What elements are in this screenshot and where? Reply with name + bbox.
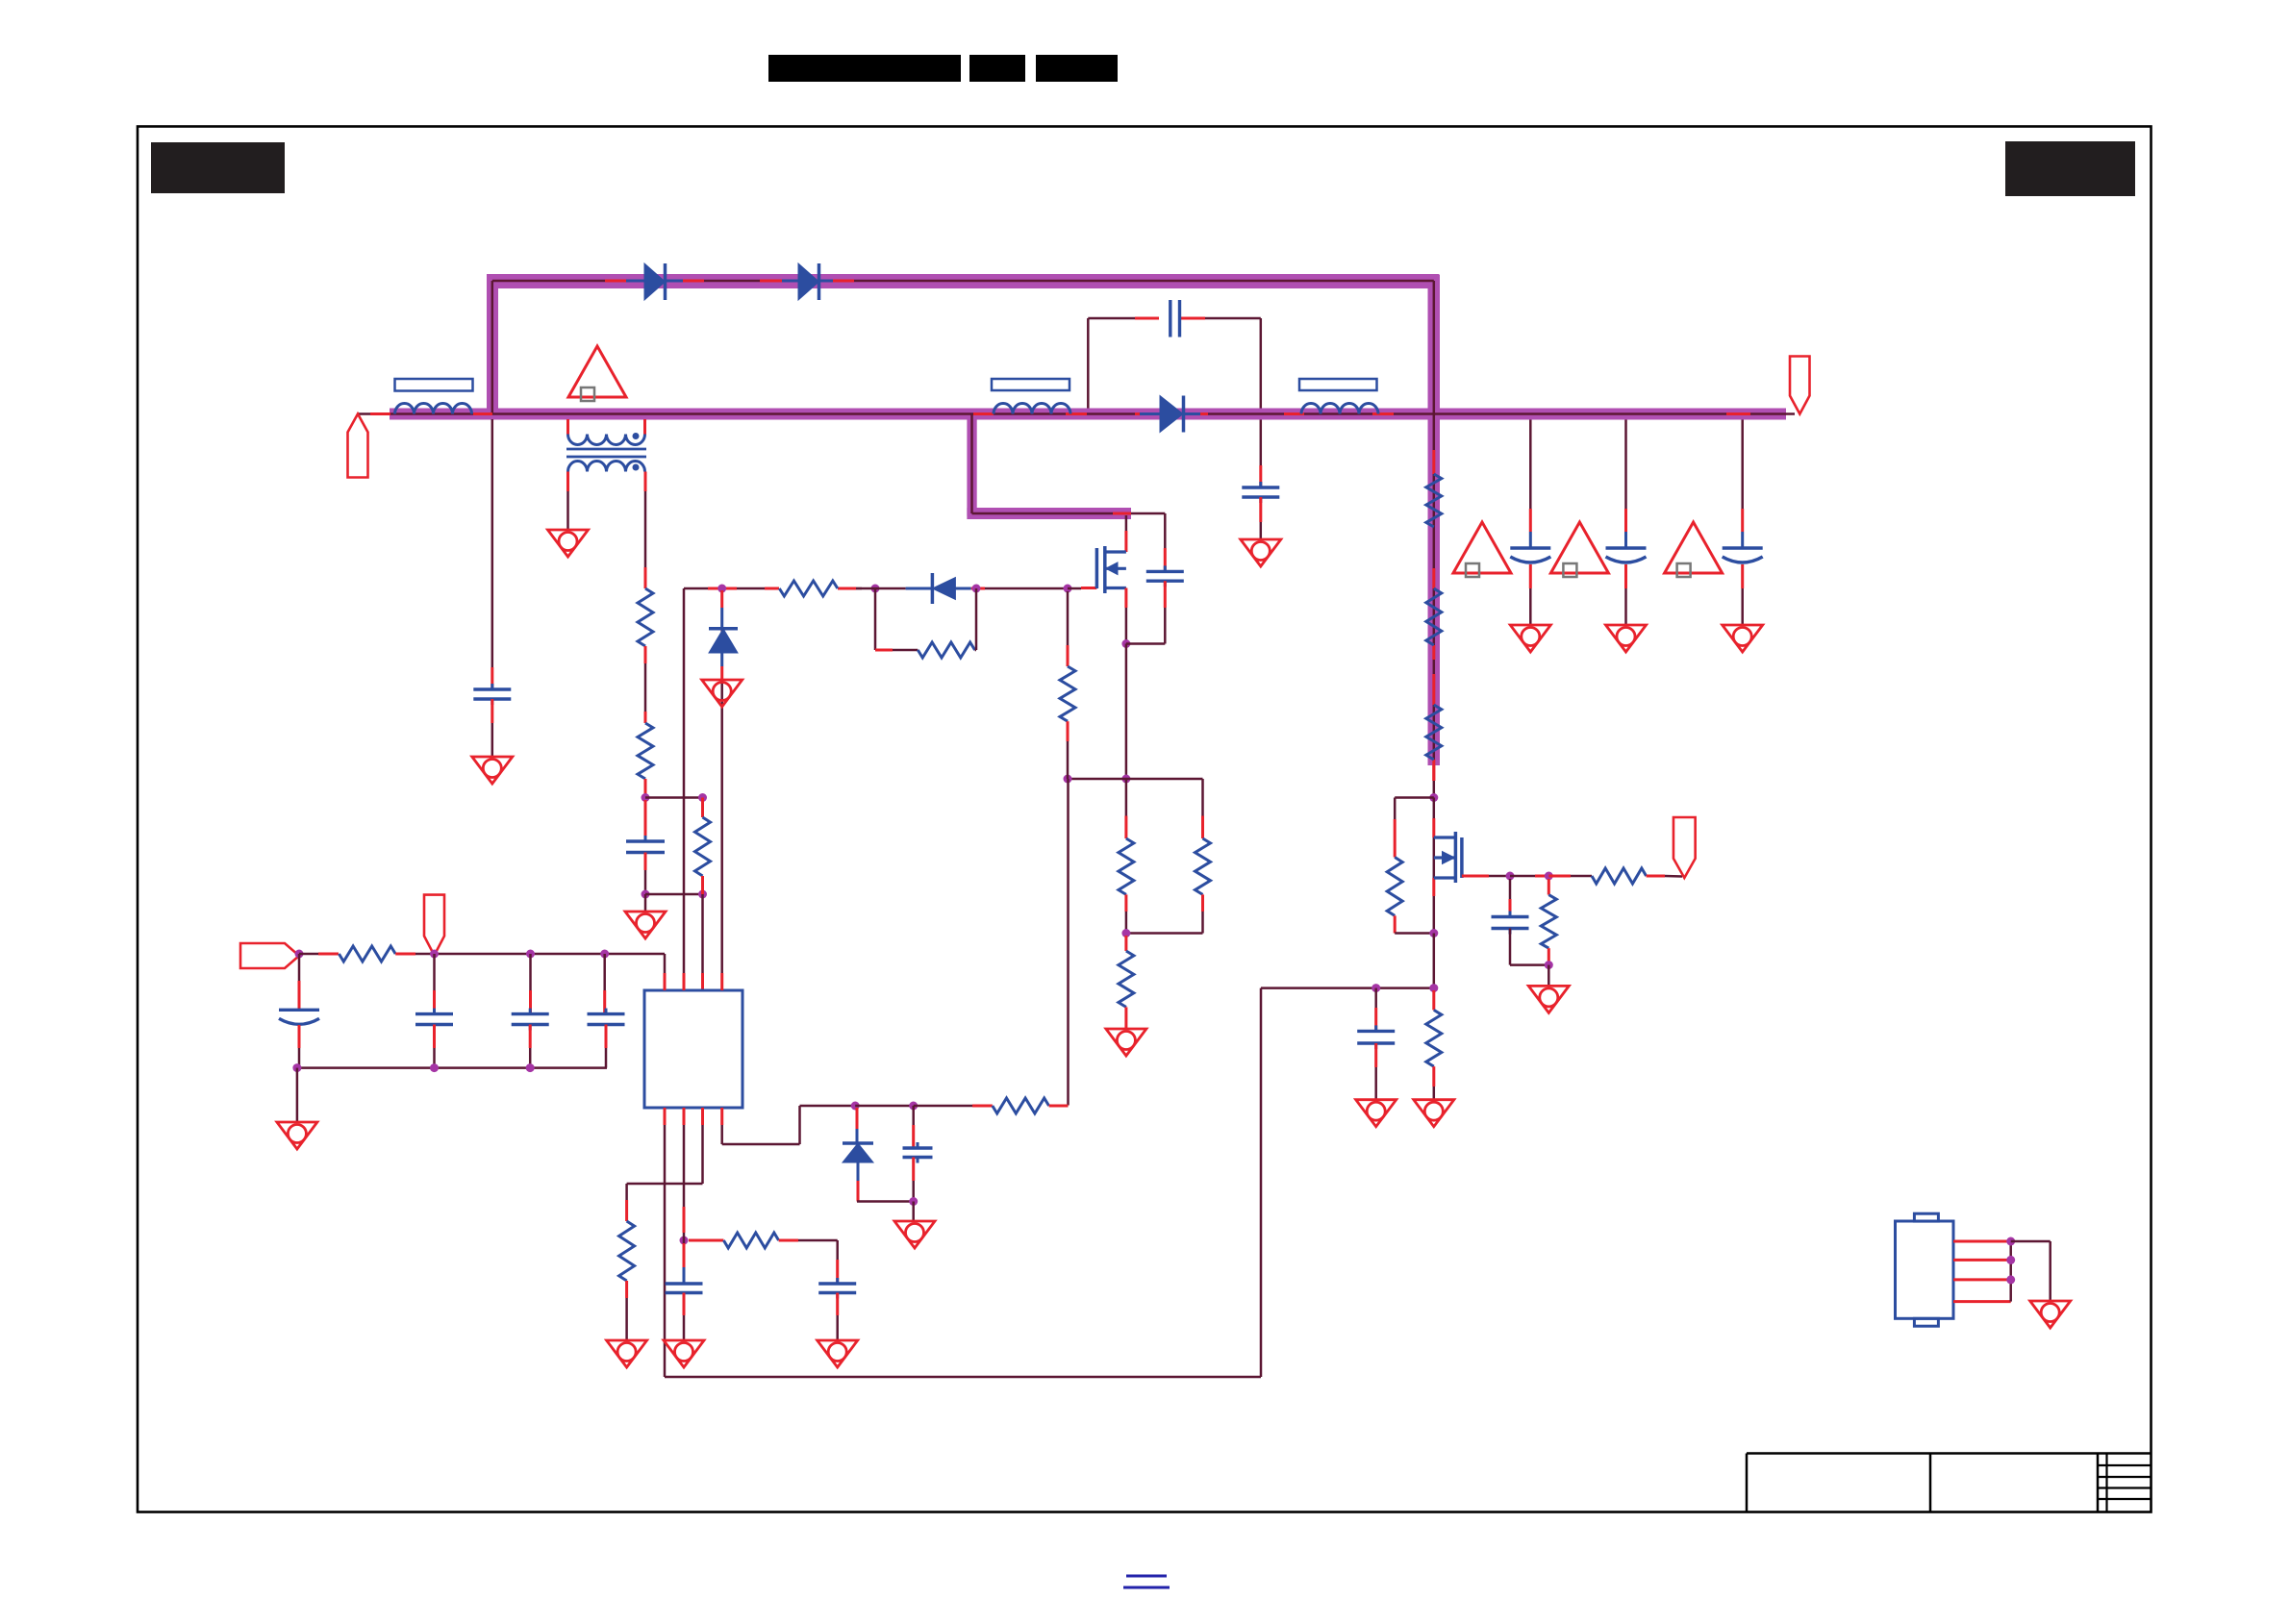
wire red segment after R4 [395, 953, 415, 956]
warning symbol W3 [1550, 522, 1608, 573]
wire rail up right [1260, 988, 1263, 1377]
zener diode D6 [709, 627, 738, 631]
capacitor C10 upper lead [683, 1243, 686, 1267]
connector CN2 pin 2 [1953, 1259, 2011, 1262]
resistor R5 [779, 581, 838, 596]
capacitor C5 upper lead [529, 954, 532, 990]
wire R3 lower lead [701, 876, 704, 894]
title bar redacted block 2 [969, 55, 1025, 82]
connector CN2 pin 1 [1953, 1240, 2011, 1243]
transformer T1 core [566, 448, 646, 451]
inductor L2 [994, 404, 1070, 414]
warning symbol W1 [568, 346, 626, 397]
MOSFET Q1 [1105, 550, 1126, 553]
wire pin C down [701, 1125, 704, 1184]
wire CN2 pin bus [2009, 1241, 2012, 1302]
ground C16 [1606, 625, 1647, 652]
capacitor C10 [666, 1282, 703, 1285]
node Q2D [1429, 793, 1438, 802]
diode D3 [1140, 412, 1160, 415]
resistor R19 [1541, 895, 1556, 949]
ground R13 [607, 1340, 647, 1367]
node VCC4 [600, 950, 609, 959]
wire Q2 source row [1261, 987, 1434, 989]
transformer T1 primary winding [568, 435, 645, 445]
capacitor C19 upper lead [1374, 988, 1377, 1008]
resistor R8 [1195, 838, 1211, 894]
inductor L1 shield box [395, 379, 473, 391]
wire red segment bypass left [875, 649, 893, 652]
diode D5 [875, 587, 906, 590]
wire pin4 jog [720, 1125, 723, 1144]
wire P1 stub [683, 1233, 686, 1243]
ground input rail [277, 1122, 317, 1149]
wire Q1 drain [1125, 515, 1128, 531]
resistor R13 [619, 1221, 635, 1281]
wire main bus [358, 412, 1786, 415]
wire divider bottom row [1126, 932, 1203, 935]
wire red segments right bus vertical [1432, 450, 1435, 474]
wire red segment top bus 2 [683, 280, 704, 283]
connector CN2 pin 4 [1953, 1300, 2011, 1303]
wire bypass loop right [975, 649, 976, 652]
capacitor C7 (Q1 snubber) [1146, 570, 1184, 573]
wire rail to ground [296, 1068, 299, 1122]
wire C16 to ground [1624, 564, 1627, 588]
warning symbol W4 [1665, 522, 1723, 573]
wire bus drop to C17 [1741, 420, 1744, 510]
capacitor C3 (electrolytic) upper lead [298, 954, 301, 981]
node GND2 [430, 1063, 439, 1072]
node S0 [1064, 775, 1072, 784]
wire red segment before D3 [1135, 412, 1154, 415]
resistor R20 [1426, 1010, 1442, 1066]
wire bus drop to C15 [1529, 420, 1532, 510]
node GA [1506, 872, 1515, 881]
wire R9 upper lead [1124, 936, 1127, 951]
wire top bus [492, 280, 1434, 283]
capacitor C9 [818, 1282, 856, 1285]
B+ bus highlight (lower horizontal) [967, 508, 1131, 519]
wire Q2 gate right [1462, 875, 1489, 878]
connector CN1 (AC input) [348, 414, 368, 478]
wire R19 lower lead [1548, 948, 1550, 964]
connector CN2 pin 3 [1953, 1278, 2011, 1281]
wire GA to GB [1510, 875, 1535, 878]
ground zener [702, 680, 742, 707]
wire D7 to node [857, 1200, 914, 1203]
top-right redacted label box [2005, 141, 2135, 196]
wire Q1 source chain [1125, 644, 1128, 780]
wire bus drop to C16 [1624, 420, 1627, 510]
wire C18 bottom [1509, 929, 1512, 965]
wire C15 to ground [1529, 564, 1532, 588]
wire R10 upper lead [1067, 591, 1070, 645]
capacitor C1 [473, 687, 511, 690]
wire T1 secondary left to ground [566, 472, 569, 492]
B+ bus highlight (right vertical) [1428, 275, 1441, 766]
wire red segment top bus 4 [833, 280, 854, 283]
capacitor C16 (electrolytic) [1606, 546, 1647, 549]
resistor R6 [918, 642, 974, 658]
node A4 [698, 890, 707, 899]
node GND1 [292, 1063, 301, 1072]
wire pin A down [664, 1125, 667, 1377]
capacitor C15 (electrolytic) [1510, 546, 1550, 549]
wire node A1 right [645, 796, 703, 799]
zener D6 lower lead [720, 653, 723, 666]
node S1 [1121, 775, 1130, 784]
resistor R14 (bus) [1426, 474, 1442, 527]
resistor R9 [1119, 951, 1134, 1007]
node GC [1545, 961, 1553, 969]
capacitor C4 [415, 1012, 453, 1015]
capacitor C13 (snubber) [1169, 300, 1171, 337]
capacitor C4 upper lead [433, 954, 436, 990]
ground C15 [1510, 625, 1550, 652]
node F3 [909, 1197, 918, 1206]
wire bus bottom to Q2 [1432, 765, 1435, 781]
wire R13 to ground [625, 1281, 628, 1298]
node CN2c [2006, 1275, 2015, 1284]
wire R2 to node [644, 779, 647, 798]
node CN2a [2006, 1237, 2015, 1246]
node CN2b [2006, 1256, 2015, 1264]
wire F1 to F2 [855, 1105, 914, 1108]
wire bypass loop left [874, 588, 877, 650]
wire R20 upper lead [1432, 990, 1435, 1010]
outer border frame [138, 127, 2152, 1512]
wire R20 lower lead [1432, 1066, 1435, 1087]
connector CN3 (VCC in) [424, 895, 444, 956]
capacitor C8 lower lead [912, 1158, 915, 1182]
wire divider top row [1068, 778, 1203, 781]
diode D7 [843, 1141, 873, 1145]
wire C9 to ground [836, 1293, 839, 1316]
top-left redacted label box [151, 142, 285, 193]
diode D7 lower lead [857, 1162, 860, 1181]
wire red segment before R4 [318, 953, 339, 956]
IC U1 pin stubs top [664, 973, 667, 990]
wire C5 lower lead [529, 1025, 532, 1049]
wire bus jog vertical [970, 414, 973, 514]
B+ bus highlight (left vertical) [487, 275, 498, 419]
resistor R15 (bus) [1426, 588, 1442, 645]
wire bus lower horizontal [972, 512, 1132, 515]
wire red segment after L3 [1372, 412, 1394, 415]
ground R9 [1106, 1029, 1146, 1056]
ground CN2 [2030, 1301, 2071, 1328]
wire feedback vertical [1067, 779, 1070, 1106]
wire VCC net [299, 953, 318, 956]
wire C4 lower lead [433, 1025, 436, 1049]
wire T1 secondary right down [644, 472, 647, 492]
wire pin2 vertical [683, 588, 686, 973]
wire red segment before C13 [1135, 317, 1159, 320]
wire node A3 to ground [644, 894, 647, 912]
ground C14 [1241, 539, 1281, 566]
wire after D5 [971, 587, 985, 590]
ground R20 [1414, 1100, 1454, 1127]
capacitor C2 [626, 839, 665, 842]
wire C19 to ground [1374, 1043, 1377, 1067]
capacitor C6 [588, 1012, 625, 1015]
resistor R12 [723, 1233, 778, 1248]
wire C2 lower lead [644, 853, 647, 871]
diode D1 [644, 263, 666, 300]
wire R19 upper lead [1548, 879, 1550, 895]
B+ bus highlight (top horizontal) [487, 274, 1439, 288]
zener D6 upper lead [720, 590, 723, 608]
ground C19 [1356, 1100, 1397, 1127]
resistor R16 (bus) [1426, 705, 1442, 760]
node VCC1 [295, 950, 304, 959]
wire red segment after L1 [473, 412, 492, 415]
node A2 [698, 793, 707, 802]
wire R11 right [1049, 1105, 1069, 1108]
wire C1 to ground [491, 699, 493, 723]
transformer T1 primary lead left [566, 419, 569, 435]
node A3 [642, 890, 650, 899]
wire R18 to CN5 [1647, 875, 1665, 878]
wire below bus to C14 [1260, 420, 1263, 466]
wire snubber cap bottom [1164, 581, 1167, 608]
wire R17 bottom [1394, 915, 1397, 933]
title block outline [1747, 1452, 2152, 1455]
IC U1 [644, 990, 742, 1108]
diode D7 upper lead [856, 1108, 859, 1129]
capacitor C5 [512, 1012, 549, 1015]
inductor L1 [395, 404, 472, 414]
wire bottom rail [665, 1376, 1261, 1379]
inductor L3 [1301, 404, 1378, 414]
resistor R1 [638, 588, 653, 646]
wire red segment before L3 [1284, 412, 1304, 415]
capacitor C6 upper lead [603, 954, 606, 990]
wire C14 to ground [1259, 497, 1262, 522]
capacitor C14 [1242, 486, 1279, 488]
ground F [894, 1221, 935, 1248]
diode D2 [798, 263, 819, 300]
wire pin B down [683, 1125, 686, 1207]
wire IC pin3 up [701, 894, 704, 973]
resistor R2 [638, 723, 653, 779]
wire GB right [1548, 875, 1571, 878]
ground C10 [664, 1340, 704, 1367]
resistor R7 [1119, 838, 1134, 894]
wire red segment at bus right end [1726, 412, 1750, 415]
wire R8 lower lead [1201, 894, 1204, 912]
resistor R11 [993, 1098, 1049, 1113]
node QS1 [1371, 984, 1380, 992]
wire R12 to C9 [779, 1239, 798, 1242]
ground T1 secondary [548, 530, 589, 557]
capacitor C8 upper lead [912, 1106, 915, 1125]
ground C17 [1723, 625, 1763, 652]
connector CN6 (B+ out) [1790, 357, 1810, 414]
wire gate row left [684, 587, 708, 590]
wire red segment after L2 [1066, 412, 1087, 415]
B+ bus highlight (main horizontal) [390, 409, 1786, 420]
wire C17 to ground [1741, 564, 1744, 588]
wire F3 to ground [912, 1202, 915, 1222]
MOSFET Q2 [1434, 836, 1456, 838]
wire pin4 vertical [720, 590, 723, 973]
wire R1 to R2 [644, 646, 647, 663]
wire R7 lower lead [1124, 894, 1127, 912]
wire bus left vertical [491, 281, 494, 414]
wire L1 node down [491, 419, 494, 667]
wire Q2 source down [1433, 934, 1436, 988]
capacitor C8 [903, 1146, 933, 1149]
node G1 [717, 585, 726, 593]
IC U1 pin stubs bottom [664, 1108, 667, 1125]
connector CN2 body [1896, 1221, 1954, 1318]
wire gate row to Q1 gate [1068, 587, 1081, 590]
wire red segment top bus 3 [760, 280, 782, 283]
transformer T1 primary lead right [643, 419, 646, 435]
capacitor C18 upper lead [1509, 879, 1512, 899]
wire bus right vertical [1433, 281, 1436, 765]
wire R8 upper lead [1201, 779, 1204, 816]
node F2 [909, 1102, 918, 1111]
wire red segment before L2 [973, 412, 994, 415]
wire C2 upper lead [644, 800, 647, 841]
wire R7 upper lead [1125, 779, 1128, 816]
wire ground rail [297, 1066, 607, 1069]
wire R9 lower lead [1124, 1007, 1127, 1029]
connector CN4 (sense flag) [240, 943, 299, 968]
title bar redacted block 3 [1036, 55, 1118, 82]
warning symbol W2 [1453, 522, 1511, 573]
wire D3 snubber loop [1087, 318, 1090, 409]
node GB [1545, 872, 1553, 881]
transformer T1 secondary winding [568, 462, 645, 472]
wire red segment before R12 [689, 1239, 723, 1242]
node A1 [642, 793, 650, 802]
node G4 [1064, 585, 1072, 593]
wire red segment top bus 1 [605, 280, 626, 283]
node VCC2 [430, 950, 439, 959]
wire C6 lower lead [605, 1025, 608, 1049]
page link underline marks [1126, 1575, 1167, 1578]
B+ bus highlight (jog vertical) [967, 409, 976, 516]
ground A [625, 912, 666, 938]
node VCC3 [526, 950, 535, 959]
node P1 [680, 1237, 689, 1245]
wire CN2 to ground [2011, 1240, 2051, 1243]
resistor R18 [1592, 868, 1647, 884]
node GND3 [526, 1063, 535, 1072]
wire bus to CN6 [1786, 412, 1795, 415]
node G2 [871, 585, 880, 593]
wire C10 to ground [683, 1293, 686, 1316]
resistor R17 [1387, 858, 1402, 916]
wire F2 right [914, 1105, 972, 1108]
node Q1S [1121, 639, 1130, 648]
wire node A3 right [645, 893, 703, 896]
wire red segment at bus left end [370, 412, 390, 415]
node S2 [1121, 929, 1130, 937]
wire Q2 drain branch left [1395, 796, 1434, 799]
wire R3 upper lead [701, 798, 704, 818]
wire GC to ground [1548, 965, 1550, 987]
wire red segment after D3 [1188, 412, 1208, 415]
resistor R3 [695, 817, 711, 876]
capacitor C18 [1492, 915, 1529, 918]
capacitor C3 electrolytic [279, 1009, 319, 1012]
wire C3 lower lead [298, 1025, 301, 1048]
node F1 [851, 1102, 860, 1111]
connector CN5 (gate drive) [1673, 817, 1696, 878]
node G3 [972, 585, 981, 593]
ground below C1 [472, 757, 513, 784]
title bar redacted block 1 [768, 55, 961, 82]
wire snubber cap top [1131, 512, 1165, 515]
resistor R10 [1060, 666, 1075, 721]
wire R10 lower lead [1067, 721, 1070, 741]
wire Q2 channel line [1433, 798, 1436, 819]
inductor L3 shield box [1299, 379, 1377, 390]
ground C9 [818, 1340, 858, 1367]
node Q2S [1429, 929, 1438, 937]
inductor L2 shield box [992, 379, 1070, 390]
capacitor C17 (electrolytic) [1723, 546, 1763, 549]
capacitor C19 [1357, 1030, 1395, 1033]
node QS2 [1429, 984, 1438, 992]
ground GC [1528, 986, 1569, 1012]
wire Q1 source [1124, 588, 1127, 609]
wire after R5 [856, 587, 875, 590]
resistor R4 [339, 946, 395, 962]
wire red segments gate row [708, 587, 737, 590]
